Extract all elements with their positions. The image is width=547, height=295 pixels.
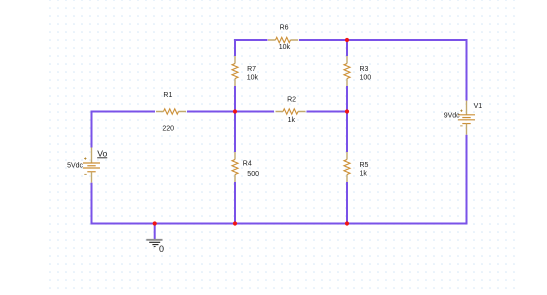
wire: left column top (91.5,111.5)-(91.5,147.5) <box>91 111 93 148</box>
svg-text:R1: R1 <box>163 92 172 99</box>
wire: right column top (466.5,40)-(466.5,100.6) <box>466 39 468 101</box>
wire: left column bottom (91.5,182.7)-(91.5,223.5) <box>91 183 93 225</box>
resistor R7 (vertical, center 235,71) <box>232 56 238 86</box>
junction at (235,223.5) <box>233 221 237 225</box>
junction at (347,111.5) <box>345 109 349 113</box>
resistor R6 (horizontal, center 283,40) <box>268 37 298 42</box>
svg-text:10k: 10k <box>247 75 259 82</box>
wire: middle wire from left corner to R1 (91.5,111.5)-(155,111.5) <box>92 111 156 113</box>
svg-text:R7: R7 <box>247 66 256 73</box>
wire: top wire right segment (299,40)-(466.5,40) <box>299 39 467 41</box>
minus mark of V1 <box>460 125 462 127</box>
svg-text:R6: R6 <box>280 24 289 31</box>
junction at (235,111.5) <box>233 109 237 113</box>
svg-text:Vo: Vo <box>97 148 107 158</box>
wire: top wire left segment (235,40)-(267,40) <box>235 39 268 41</box>
wire: mid-left column (235,86)-(235,111.5) <box>234 86 236 112</box>
svg-text:R3: R3 <box>360 66 369 73</box>
wire: middle wire R1 to junction (187,111.5)-(235,111.5) <box>187 111 235 113</box>
svg-text:V1: V1 <box>474 103 483 110</box>
resistor R3 (vertical, center 347,71) <box>344 56 350 86</box>
svg-text:R5: R5 <box>360 162 369 169</box>
wire: right column bottom (466.5,134.8)-(466.5,223.5) <box>466 135 468 225</box>
svg-text:500: 500 <box>247 171 259 178</box>
svg-text:10k: 10k <box>279 44 291 51</box>
minus mark of 5Vdc <box>84 173 86 175</box>
wire: middle wire junction to R2 (235,111.5)-(274,111.5) <box>235 111 274 113</box>
svg-text:5Vdc: 5Vdc <box>67 162 83 169</box>
svg-text:R4: R4 <box>243 161 252 168</box>
svg-text:1k: 1k <box>288 117 296 124</box>
resistor R2 (horizontal, center 290.5,111.5) <box>276 109 306 114</box>
junction at (347,40) <box>345 38 349 42</box>
resistor R4 (vertical, center 235,167) <box>232 152 238 182</box>
svg-text:R2: R2 <box>287 97 296 104</box>
wire: mid-left column top (235,40)-(235,56) <box>234 39 236 56</box>
wire: ground stem (154.7,223.5)-(154.7,239.5) <box>154 224 156 240</box>
svg-text:0: 0 <box>159 244 164 254</box>
ground 0 symbol <box>146 240 162 247</box>
wire: mid-right column bottom (347,182)-(347,223.5) <box>346 182 348 224</box>
wire: mid-right column (347,111.5)-(347,152) <box>346 112 348 153</box>
wire: bottom wire (91.5,223.5)-(466.5,223.5) <box>92 223 467 225</box>
svg-text:1k: 1k <box>360 171 368 178</box>
svg-text:220: 220 <box>162 126 174 133</box>
svg-text:100: 100 <box>360 74 372 81</box>
plus mark of 5Vdc <box>84 157 86 159</box>
wire: mid-left column (235,111.5)-(235,152) <box>234 112 236 153</box>
voltage source V2 5Vdc (battery, x 91.5) <box>83 148 100 183</box>
junction at (347,223.5) <box>345 221 349 225</box>
plus mark of V1 <box>460 110 462 112</box>
wire: mid-left column bottom (235,182)-(235,223.5) <box>234 182 236 224</box>
wire: mid-right column (347,86)-(347,111.5) <box>346 86 348 112</box>
resistor R5 (vertical, center 347,167) <box>344 152 350 182</box>
voltage source V1 9Vdc (battery, x 466.5) <box>458 101 475 135</box>
resistor R1 (horizontal, center 171,111.5) <box>156 109 186 114</box>
wire: middle wire R2 to junction (306.5,111.5)-(347,111.5) <box>307 111 348 113</box>
wire: mid-right column top (347,40)-(347,56) <box>346 39 348 56</box>
junction at (154.7,223.5) <box>153 221 157 225</box>
svg-text:9Vdc: 9Vdc <box>444 113 460 120</box>
